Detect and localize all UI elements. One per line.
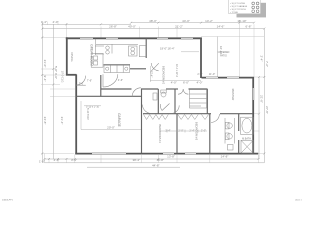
svg-text:M.BATH: M.BATH [242, 137, 251, 140]
svg-text:5'-10 TRAY: 5'-10 TRAY [86, 108, 89, 120]
svg-text:6'-0": 6'-0" [183, 80, 189, 84]
svg-text:4'-0": 4'-0" [53, 20, 59, 24]
svg-text:21'-4": 21'-4" [60, 117, 64, 125]
svg-text:MASTER: MASTER [231, 89, 235, 101]
svg-text:2'-0": 2'-0" [201, 129, 206, 133]
svg-text:14'-8": 14'-8" [221, 154, 229, 158]
svg-text:20'-0": 20'-0" [107, 126, 115, 130]
svg-text:PATIO: PATIO [220, 55, 227, 58]
svg-text:7'-2": 7'-2" [265, 61, 269, 67]
svg-text:6'-0": 6'-0" [54, 73, 58, 79]
svg-text:1'-0": 1'-0" [39, 160, 45, 164]
svg-text:16'-8": 16'-8" [156, 158, 164, 162]
svg-text:27'-8": 27'-8" [265, 106, 269, 114]
svg-text:24005-FP1: 24005-FP1 [2, 200, 14, 202]
svg-text:4'-0": 4'-0" [197, 80, 203, 84]
svg-text:▪ SQ FT GARAGE: ▪ SQ FT GARAGE [230, 5, 247, 8]
svg-text:2'-4": 2'-4" [165, 129, 170, 133]
svg-text:11'-0": 11'-0" [209, 72, 215, 76]
svg-text:14'-6": 14'-6" [217, 25, 225, 29]
svg-text:26'-8": 26'-8" [109, 25, 117, 29]
svg-text:21'-0": 21'-0" [43, 60, 47, 68]
svg-text:19'-0": 19'-0" [160, 46, 167, 50]
svg-text:48'-0": 48'-0" [149, 19, 157, 23]
svg-text:38'-4": 38'-4" [132, 158, 140, 162]
svg-text:sheet 1: sheet 1 [295, 199, 302, 202]
svg-text:16'-10": 16'-10" [237, 19, 246, 23]
svg-text:5'-8": 5'-8" [54, 66, 58, 72]
svg-text:14'-2": 14'-2" [205, 19, 213, 23]
svg-text:▪ SQ FT LIVING: ▪ SQ FT LIVING [230, 3, 245, 5]
svg-text:2'-4": 2'-4" [260, 56, 264, 62]
svg-text:4'-6": 4'-6" [118, 78, 123, 82]
svg-text:21'-8": 21'-8" [260, 95, 264, 103]
svg-text:16'-4": 16'-4" [167, 46, 174, 50]
svg-text:11'-4 x 12'-0: 11'-4 x 12'-0 [175, 64, 178, 77]
svg-text:44'-8": 44'-8" [152, 163, 160, 167]
svg-text:3'-4": 3'-4" [71, 158, 77, 162]
svg-text:2'-0": 2'-0" [178, 129, 183, 133]
svg-text:40'-0": 40'-0" [128, 25, 136, 29]
svg-text:13'-8": 13'-8" [167, 154, 175, 158]
svg-text:BEDROOM #4: BEDROOM #4 [158, 124, 162, 143]
svg-text:BEDROOM #2: BEDROOM #2 [162, 66, 166, 85]
svg-text:▪ SQ FT PORCH: ▪ SQ FT PORCH [230, 9, 246, 11]
svg-text:6'-8": 6'-8" [246, 25, 252, 29]
svg-text:24'-8": 24'-8" [43, 117, 47, 125]
svg-text:GREAT ROOM: GREAT ROOM [90, 44, 94, 66]
svg-text:4'-0": 4'-0" [54, 158, 60, 162]
svg-text:1'-4": 1'-4" [41, 20, 47, 24]
svg-text:4'-0": 4'-0" [171, 80, 177, 84]
svg-text:▪ TOTAL: ▪ TOTAL [230, 11, 239, 14]
svg-text:7'-6": 7'-6" [87, 78, 92, 82]
svg-text:44'-0": 44'-0" [182, 19, 190, 23]
svg-text:21'-2": 21'-2" [175, 25, 183, 29]
svg-text:GARAGE: GARAGE [117, 113, 121, 127]
svg-text:9'-4": 9'-4" [43, 76, 47, 82]
